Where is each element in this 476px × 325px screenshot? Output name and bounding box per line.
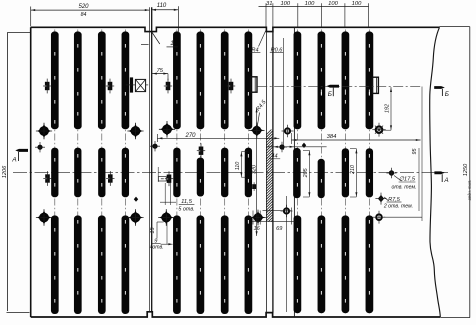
section marker B right xyxy=(434,86,445,89)
horizontal centreline xyxy=(13,171,448,173)
svg-text:1250: 1250 xyxy=(463,163,469,176)
dimension 31 and 100s top xyxy=(259,6,369,8)
svg-text:100: 100 xyxy=(280,1,290,7)
dimension 210 vertical xyxy=(355,149,357,197)
ring hole bottom joint xyxy=(281,205,293,217)
ring hole with cross right xyxy=(372,123,385,137)
svg-text:210: 210 xyxy=(350,165,356,175)
joint strip verticals xyxy=(265,32,267,313)
label R7.5 xyxy=(384,197,388,201)
auxiliary vertical line at joint xyxy=(282,38,284,150)
small hole near joint top xyxy=(302,143,306,148)
svg-text:водн. тип.: водн. тип. xyxy=(467,180,472,201)
clip tab with cross on column 4 xyxy=(126,77,148,92)
ring hole lower right xyxy=(373,211,385,224)
svg-text:320: 320 xyxy=(251,164,257,174)
small bolt right of column 8 xyxy=(252,182,256,191)
svg-text:А: А xyxy=(11,156,17,163)
small marker below column 4 slot xyxy=(134,197,138,202)
thin outline right beyond break line xyxy=(440,26,470,28)
extension lines right of holes xyxy=(421,87,423,222)
flanged hole bottom mid-left xyxy=(127,209,143,226)
bottom row of slots xyxy=(51,215,373,314)
svg-text:69: 69 xyxy=(276,226,282,232)
auxiliary vertical line at joint lower xyxy=(286,196,288,312)
label diameter 17.5 xyxy=(394,176,402,182)
svg-text:1: 1 xyxy=(170,40,174,47)
svg-text:∅17,5: ∅17,5 xyxy=(399,176,416,183)
dimension 110 top xyxy=(151,9,178,11)
svg-text:4отв.: 4отв. xyxy=(149,245,163,251)
flanged hole bottom-left xyxy=(36,209,52,226)
section trace line through tabs xyxy=(257,85,422,87)
right plate left edge xyxy=(293,27,295,317)
svg-text:84: 84 xyxy=(81,12,87,18)
centreline dashes over slots xyxy=(54,44,370,303)
label 11.5 5 holes xyxy=(164,183,166,205)
small hole left xyxy=(35,142,45,152)
hatching of joint strip xyxy=(266,128,273,229)
small hole centre xyxy=(150,141,160,151)
section marker A left xyxy=(15,149,28,152)
dimension 384 xyxy=(291,139,420,141)
flanged hole top-left xyxy=(36,123,52,140)
svg-text:1206: 1206 xyxy=(2,165,8,178)
break line (wavy) xyxy=(430,27,441,317)
flanged hole bottom at joint xyxy=(250,210,265,226)
svg-text:Б: Б xyxy=(445,91,449,98)
svg-text:95: 95 xyxy=(412,148,418,155)
small hole R7.5 xyxy=(378,195,384,202)
svg-text:100: 100 xyxy=(305,1,315,7)
flanged hole bottom centre xyxy=(158,209,174,226)
svg-text:520: 520 xyxy=(78,4,89,10)
hole d17.5 xyxy=(386,168,396,179)
thin outline left of plate xyxy=(7,32,9,311)
clip tab on column 12 xyxy=(372,77,378,93)
small outline box left of bolt xyxy=(158,167,166,182)
svg-text:75: 75 xyxy=(157,68,164,74)
svg-text:270: 270 xyxy=(184,133,196,139)
dimension 44 xyxy=(266,146,326,148)
vertical centrelines of slot columns xyxy=(55,30,370,315)
svg-text:100: 100 xyxy=(352,1,362,7)
dimensions 16 and 69 xyxy=(252,221,295,223)
plate left edge xyxy=(30,27,32,317)
bolt symbol 1 xyxy=(43,79,51,94)
svg-text:15: 15 xyxy=(150,227,156,234)
small hole at joint xyxy=(277,142,287,152)
flanged hole top at joint xyxy=(249,123,264,139)
dimension 520 xyxy=(31,9,150,11)
leader and label 1 xyxy=(141,44,149,46)
ring hole top joint xyxy=(282,125,294,137)
bolt symbol 4 xyxy=(227,79,235,94)
svg-text:100: 100 xyxy=(328,1,338,7)
svg-text:5 отв.: 5 отв. xyxy=(178,206,194,212)
svg-text:110: 110 xyxy=(157,3,167,9)
bolt symbol 5 xyxy=(43,171,51,186)
svg-text:205: 205 xyxy=(303,167,309,178)
flanged hole top centre xyxy=(159,121,175,138)
bolt symbol 8 xyxy=(197,143,205,158)
dimension 320 vertical xyxy=(256,108,258,237)
svg-text:110: 110 xyxy=(235,162,241,171)
section marker B left xyxy=(326,85,339,88)
svg-text:31: 31 xyxy=(266,1,272,7)
plate bottom edge with notches xyxy=(31,312,441,317)
section marker A right xyxy=(434,171,444,174)
svg-text:2 отв. тем.: 2 отв. тем. xyxy=(383,204,413,210)
division line between plate sections xyxy=(149,7,151,312)
dimension 110 vertical xyxy=(240,152,242,178)
clip tab on column 8 xyxy=(251,77,257,92)
bolt symbol 7 xyxy=(165,171,173,186)
svg-text:192: 192 xyxy=(384,104,390,113)
svg-text:16: 16 xyxy=(253,226,260,232)
dimension 205 vertical xyxy=(308,150,310,197)
flanged hole top mid-left xyxy=(127,123,143,140)
svg-text:отв. тем.: отв. тем. xyxy=(392,185,417,191)
bolt symbol 3 xyxy=(164,79,172,94)
svg-text:А: А xyxy=(443,177,448,184)
dimension 192 vertical xyxy=(390,87,392,130)
svg-text:384: 384 xyxy=(327,134,337,140)
bolt symbol 6 xyxy=(106,171,114,186)
plate top edge with notches xyxy=(31,27,440,31)
bolt symbol 2 xyxy=(106,79,114,94)
svg-text:Б: Б xyxy=(328,91,332,98)
dimension 270 xyxy=(157,137,279,139)
top row of slots xyxy=(51,31,373,129)
middle row of short slots xyxy=(51,148,373,199)
